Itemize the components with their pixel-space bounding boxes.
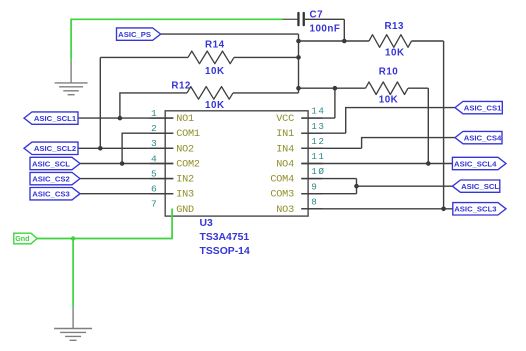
svg-text:1: 1 xyxy=(151,108,157,119)
svg-text:NO3: NO3 xyxy=(276,205,294,216)
svg-text:GND: GND xyxy=(176,205,194,216)
svg-text:4: 4 xyxy=(151,153,157,164)
svg-text:R13: R13 xyxy=(384,21,404,32)
svg-text:ASIC_CS4: ASIC_CS4 xyxy=(464,133,502,142)
svg-text:IN3: IN3 xyxy=(176,190,194,201)
svg-text:IN1: IN1 xyxy=(276,129,294,140)
svg-text:3: 3 xyxy=(151,138,157,149)
svg-text:NO2: NO2 xyxy=(176,144,194,155)
svg-text:R12: R12 xyxy=(171,81,191,92)
svg-text:Gnd: Gnd xyxy=(15,234,29,243)
svg-text:10K: 10K xyxy=(385,48,404,59)
svg-text:U3: U3 xyxy=(200,218,214,229)
svg-text:10K: 10K xyxy=(205,100,224,111)
svg-text:9: 9 xyxy=(311,181,318,192)
svg-text:6: 6 xyxy=(151,184,157,195)
svg-text:R10: R10 xyxy=(379,66,399,77)
svg-text:R14: R14 xyxy=(205,40,225,51)
svg-text:8: 8 xyxy=(311,196,318,207)
svg-text:IN2: IN2 xyxy=(176,175,194,186)
svg-text:ASIC_SCL: ASIC_SCL xyxy=(461,182,499,191)
svg-text:ASIC_CS1: ASIC_CS1 xyxy=(464,103,502,112)
svg-text:TS3A4751: TS3A4751 xyxy=(200,232,250,243)
svg-text:C7: C7 xyxy=(310,10,324,21)
svg-text:2: 2 xyxy=(151,123,157,134)
svg-text:11: 11 xyxy=(311,151,325,162)
svg-text:1Ø: 1Ø xyxy=(311,166,325,177)
svg-text:100nF: 100nF xyxy=(310,23,341,34)
svg-text:10K: 10K xyxy=(205,66,224,77)
svg-text:COM4: COM4 xyxy=(270,175,294,186)
svg-text:ASIC_SCL2: ASIC_SCL2 xyxy=(34,144,76,153)
svg-text:COM3: COM3 xyxy=(270,190,294,201)
svg-text:ASIC_PS: ASIC_PS xyxy=(118,30,151,39)
svg-text:VCC: VCC xyxy=(276,114,294,125)
svg-text:ASIC_SCL: ASIC_SCL xyxy=(32,159,70,168)
svg-text:COM1: COM1 xyxy=(176,129,200,140)
svg-text:7: 7 xyxy=(151,199,157,210)
svg-text:NO1: NO1 xyxy=(176,114,194,125)
svg-text:13: 13 xyxy=(311,121,325,132)
svg-text:IN4: IN4 xyxy=(276,144,294,155)
svg-text:10K: 10K xyxy=(379,95,398,106)
svg-text:ASIC_SCL4: ASIC_SCL4 xyxy=(454,159,497,168)
svg-text:14: 14 xyxy=(311,106,325,117)
svg-text:ASIC_SCL1: ASIC_SCL1 xyxy=(34,114,77,123)
svg-text:12: 12 xyxy=(311,136,325,147)
svg-text:ASIC_CS2: ASIC_CS2 xyxy=(32,174,70,183)
svg-text:TSSOP-14: TSSOP-14 xyxy=(200,246,250,257)
svg-text:ASIC_SCL3: ASIC_SCL3 xyxy=(454,205,496,214)
svg-text:COM2: COM2 xyxy=(176,160,200,171)
svg-text:ASIC_CS3: ASIC_CS3 xyxy=(32,190,70,199)
svg-text:NO4: NO4 xyxy=(276,160,294,171)
svg-text:5: 5 xyxy=(151,168,157,179)
